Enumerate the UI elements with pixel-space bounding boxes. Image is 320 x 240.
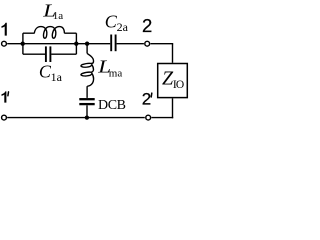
terminal 1 circle xyxy=(2,41,7,46)
inductor Lma coil (vertical) xyxy=(81,53,94,86)
wire tank bottom rail stubs xyxy=(23,53,77,55)
wire main rail left segment (terminal 1 to C2a) xyxy=(7,43,110,45)
capacitor DCB plate bottom xyxy=(79,103,94,105)
wire tank right vertical xyxy=(75,33,77,54)
node dot A (tank left) xyxy=(21,42,25,46)
node dot B (tank right) xyxy=(74,42,78,46)
capacitor C2a plate left xyxy=(110,35,112,52)
svg-text:2: 2 xyxy=(142,15,152,36)
svg-text:2a: 2a xyxy=(117,20,129,34)
wire tank top rail stubs xyxy=(23,32,77,34)
wire bottom rail left segment xyxy=(7,117,145,119)
capacitor C2a plate right xyxy=(115,35,117,52)
svg-text:2: 2 xyxy=(142,89,151,108)
node dot D (shunt bottom) xyxy=(85,115,89,119)
inductor L1a coil xyxy=(34,27,64,39)
label terminal 1' xyxy=(2,91,7,102)
svg-text:1a: 1a xyxy=(53,10,64,22)
capacitor C1a plate right xyxy=(49,46,51,62)
node dot C (shunt top) xyxy=(85,42,89,46)
wire main rail C2a to terminal 2 xyxy=(117,43,144,45)
capacitor DCB plate top xyxy=(79,98,94,100)
svg-text:IO: IO xyxy=(173,79,184,91)
wire shunt branch top xyxy=(86,44,88,54)
svg-text:1a: 1a xyxy=(51,70,63,84)
terminal 1' circle xyxy=(2,115,7,120)
wire ZIO box bottom to bottom rail xyxy=(172,98,174,118)
wire tank left vertical xyxy=(22,33,24,54)
impedance box ZIO xyxy=(158,64,188,98)
wire shunt branch below DCB xyxy=(86,105,88,117)
label terminal 1 xyxy=(2,23,7,36)
wire shunt branch between coil and DCB cap xyxy=(86,86,88,98)
capacitor C1a plate left xyxy=(45,46,47,62)
terminal 2 circle xyxy=(145,41,150,46)
svg-text:ma: ma xyxy=(109,68,123,80)
terminal 2' circle xyxy=(146,115,151,120)
wire bottom rail right segment xyxy=(152,117,174,119)
wire right vertical into ZIO box top xyxy=(172,44,174,63)
svg-text:DCB: DCB xyxy=(98,98,126,113)
wire terminal 2 to right corner xyxy=(151,43,174,45)
